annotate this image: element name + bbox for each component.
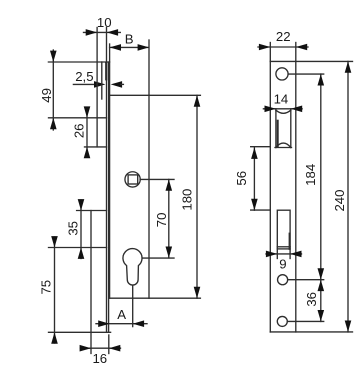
dimension 2,5 left arrow bbox=[94, 81, 105, 88]
dimension 49 top arrow bbox=[50, 51, 57, 62]
dimension B left arrow bbox=[110, 44, 121, 51]
dimension 9 right arrow bbox=[290, 251, 301, 258]
dimension 9 left arrow bbox=[266, 251, 277, 258]
latch bottom reference line bbox=[85, 146, 107, 148]
dimension 56 label bbox=[234, 171, 249, 186]
dimension 26 top arrow bbox=[84, 106, 91, 117]
dimension A line bbox=[96, 323, 147, 325]
dimension A left arrow bbox=[98, 320, 109, 327]
bottom screw hole bbox=[277, 316, 287, 326]
dimension 14 right arrow bbox=[291, 106, 302, 113]
latch top sag arc bbox=[276, 110, 291, 113]
dimension 10 left arrow bbox=[86, 29, 97, 36]
svg-text:10: 10 bbox=[97, 15, 112, 30]
bolt front face line bbox=[90, 211, 92, 354]
svg-text:9: 9 bbox=[279, 256, 286, 271]
dimension 16 left arrow bbox=[80, 345, 91, 352]
dimension 70 top arrow bbox=[166, 179, 173, 190]
dimension 14 label bbox=[274, 91, 289, 106]
dimension 16 right arrow bbox=[109, 345, 120, 352]
faceplate thick section bar at top bbox=[105, 62, 107, 80]
dimension A label bbox=[117, 307, 126, 322]
cylinder vertical center line bbox=[132, 285, 134, 326]
dimension A right arrow bbox=[133, 320, 144, 327]
latch cutout bottom edge bbox=[275, 147, 292, 149]
svg-text:35: 35 bbox=[66, 221, 81, 236]
dimension 22 left arrow bbox=[259, 44, 270, 51]
svg-text:75: 75 bbox=[39, 280, 54, 295]
faceplate top edge (left view) with 49-extension bbox=[48, 61, 109, 63]
lock case outline bbox=[110, 95, 149, 298]
dimension 22 line bbox=[258, 46, 308, 48]
dimension 10 label bbox=[97, 15, 112, 30]
svg-text:49: 49 bbox=[39, 88, 54, 103]
dimension 180 top arrow bbox=[194, 95, 201, 106]
svg-text:180: 180 bbox=[179, 189, 194, 211]
dimension 26 label bbox=[71, 123, 86, 138]
dimension 9 label bbox=[279, 256, 286, 271]
svg-text:184: 184 bbox=[303, 164, 318, 186]
deadbolt cutout side extensions for 9 dim bbox=[277, 249, 290, 259]
dimension 70 label bbox=[154, 213, 169, 228]
top hole center extension line bbox=[288, 73, 324, 75]
dimension 2,5 right arrow bbox=[111, 81, 122, 88]
dimension 240 label bbox=[332, 189, 347, 211]
bottom hole center extension line bbox=[287, 320, 323, 322]
latch bolt heavy edge bbox=[277, 121, 279, 147]
spindle center extension line bbox=[140, 178, 174, 180]
dimension 26 bottom arrow bbox=[84, 147, 91, 158]
dimension 240 top arrow bbox=[345, 61, 352, 72]
dimension 180 label bbox=[179, 189, 194, 211]
extension line 22 left bbox=[269, 43, 271, 62]
svg-text:16: 16 bbox=[92, 351, 107, 366]
extension line for B right (case back extended up) bbox=[148, 40, 150, 95]
deadbolt heavy right edge bbox=[289, 234, 291, 249]
dimension 240 bottom arrow bbox=[345, 321, 352, 332]
dimension 2,5 line right tail bbox=[121, 83, 124, 85]
faceplate plate outline bbox=[270, 61, 296, 332]
dimension 184 label bbox=[303, 164, 318, 186]
dimension 75 label bbox=[39, 280, 54, 295]
svg-text:70: 70 bbox=[154, 213, 169, 228]
plate top edge extended to 240 dim bbox=[270, 60, 352, 62]
dimension 75 bottom arrow bbox=[51, 332, 58, 343]
dimension 75 top arrow bbox=[51, 236, 58, 247]
dimension 49 line bbox=[52, 50, 54, 130]
dimension 70 bottom arrow bbox=[166, 247, 173, 258]
dimension 49 bottom arrow bbox=[50, 118, 57, 129]
dimension 70 line bbox=[168, 179, 170, 258]
svg-text:56: 56 bbox=[234, 171, 249, 186]
extension line 22 right bbox=[295, 43, 297, 62]
dimension 9 line bbox=[266, 253, 302, 255]
dimension 36 label bbox=[304, 292, 319, 307]
dimension 35 top arrow bbox=[78, 199, 85, 210]
dimension B line with inside arrows bbox=[110, 46, 149, 48]
faceplate back line 1 bbox=[106, 62, 108, 332]
dimension 240 line bbox=[347, 61, 349, 332]
middle hole center extension line bbox=[288, 279, 324, 281]
top screw hole bbox=[276, 68, 288, 80]
dimension 184 top arrow bbox=[318, 74, 325, 85]
spindle hole circle bbox=[125, 172, 140, 187]
dimension 22 right arrow bbox=[296, 44, 307, 51]
svg-text:A: A bbox=[117, 307, 126, 322]
latch bottom dome arc bbox=[276, 143, 291, 147]
deadbolt inner bottom line bbox=[277, 246, 290, 248]
dimension 35 line bbox=[80, 200, 82, 259]
svg-text:240: 240 bbox=[332, 189, 347, 211]
latch top reference line bbox=[49, 117, 107, 119]
bolt block top reference line bbox=[77, 210, 107, 212]
inner vertical line at top bbox=[101, 62, 103, 99]
dimension 14 left arrow bbox=[265, 106, 276, 113]
case top edge extended to 180 dim bbox=[110, 94, 201, 96]
dimension 56 bottom arrow bbox=[251, 199, 258, 210]
middle screw hole bbox=[278, 275, 288, 285]
svg-text:22: 22 bbox=[276, 29, 291, 44]
faceplate bottom edge (left view) with 75-extension bbox=[49, 331, 111, 333]
dimension 2,5 line left part bbox=[73, 83, 95, 85]
dimension 35 bottom arrow bbox=[78, 248, 85, 259]
extension line 56 top bbox=[251, 146, 271, 148]
dimension 184 and 36 shared line bbox=[320, 74, 322, 321]
extension line for B left (case front extended up) bbox=[109, 44, 111, 95]
svg-text:2,5: 2,5 bbox=[75, 69, 93, 84]
cylinder center extension line bbox=[142, 257, 174, 259]
dimension 10 right arrow bbox=[107, 29, 118, 36]
plate bottom edge extended to 240 dim bbox=[270, 331, 352, 333]
faceplate front edge upper part bbox=[96, 28, 98, 147]
extension line 56 bottom bbox=[251, 209, 271, 211]
dimension 14 line over latch cutout top bbox=[263, 108, 302, 110]
bolt block bottom reference line bbox=[49, 247, 107, 249]
dimension 180 line bbox=[196, 95, 198, 298]
dimension B label bbox=[125, 32, 134, 47]
dimension 26 line bbox=[86, 108, 88, 157]
extension line for 10 right bbox=[106, 28, 108, 63]
svg-text:26: 26 bbox=[71, 123, 86, 138]
dimension 16 line bbox=[81, 347, 121, 349]
dimension 16 label bbox=[92, 351, 107, 366]
svg-text:14: 14 bbox=[274, 91, 289, 106]
svg-text:B: B bbox=[125, 32, 134, 47]
case bottom edge extended to 180 dim bbox=[109, 297, 201, 299]
dimension 2,5 label bbox=[75, 69, 93, 84]
dimension B right arrow bbox=[138, 44, 149, 51]
dimension 184 bottom arrow bbox=[318, 268, 325, 279]
dimension 75 line bbox=[54, 237, 56, 343]
dimension 22 label bbox=[276, 29, 291, 44]
svg-text:36: 36 bbox=[304, 292, 319, 307]
euro cylinder profile hole bbox=[123, 249, 142, 286]
dimension 56 line bbox=[253, 148, 255, 211]
latch cutout sides bbox=[276, 109, 291, 148]
dimension 49 label bbox=[39, 88, 54, 103]
extension line for 16 right bbox=[108, 335, 110, 354]
dimension 35 label bbox=[66, 221, 81, 236]
dimension 56 top arrow bbox=[251, 148, 258, 159]
dimension 10 line bbox=[84, 31, 121, 33]
spindle square bbox=[128, 175, 138, 184]
dimension 36 bottom arrow bbox=[318, 310, 325, 321]
dimension 36 top arrow bbox=[318, 280, 325, 291]
dimension 180 bottom arrow bbox=[194, 287, 201, 298]
deadbolt cutout outline bbox=[277, 210, 290, 249]
faceplate back line 2 bbox=[108, 62, 110, 332]
